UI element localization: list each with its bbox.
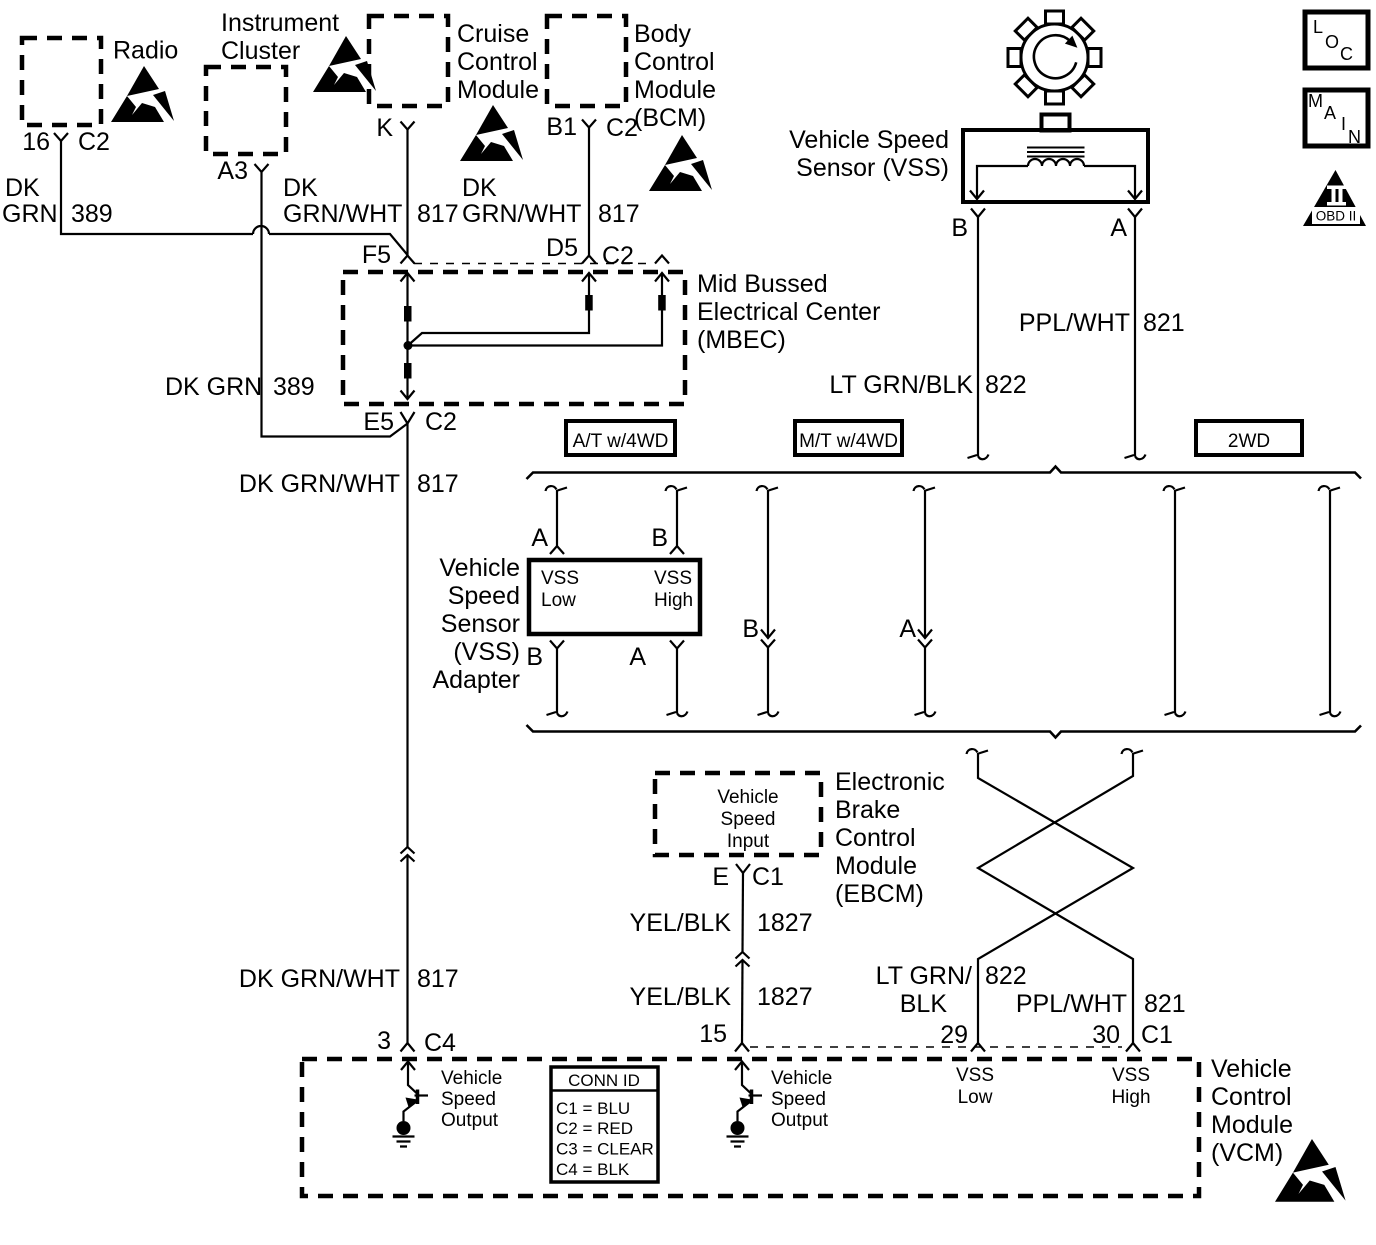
svg-text:YEL/BLK: YEL/BLK bbox=[630, 909, 732, 937]
svg-text:Control: Control bbox=[457, 48, 538, 76]
option box 2WD bbox=[1196, 421, 1302, 455]
svg-text:Module: Module bbox=[457, 76, 539, 104]
connector pin E5 C2 (MBEC bottom) bbox=[363, 408, 457, 436]
svg-text:Vehicle: Vehicle bbox=[439, 554, 520, 582]
svg-text:E: E bbox=[712, 863, 729, 891]
svg-text:Speed: Speed bbox=[448, 582, 520, 610]
svg-text:A: A bbox=[899, 615, 916, 643]
connector pin A (VSS) bbox=[1110, 209, 1142, 243]
svg-text:C2: C2 bbox=[602, 242, 634, 270]
svg-text:C1: C1 bbox=[752, 863, 784, 891]
svg-text:2WD: 2WD bbox=[1228, 431, 1270, 452]
wire DK GRN 389 from A3 to E5 bbox=[165, 172, 408, 437]
connector pin 15 C1 (VCM) bbox=[699, 1020, 749, 1052]
svg-text:VSS: VSS bbox=[956, 1065, 994, 1086]
MBEC internal output to E5 bbox=[401, 346, 415, 400]
svg-text:K: K bbox=[376, 114, 393, 142]
svg-text:821: 821 bbox=[1143, 309, 1185, 337]
svg-text:16: 16 bbox=[22, 128, 50, 156]
svg-text:Output: Output bbox=[441, 1110, 499, 1131]
cruise control module box bbox=[369, 16, 539, 106]
option box A/T w/4WD bbox=[566, 421, 675, 455]
svg-text:CONN ID: CONN ID bbox=[568, 1071, 640, 1090]
svg-text:Control: Control bbox=[1211, 1083, 1292, 1111]
connector id legend table bbox=[551, 1067, 658, 1182]
svg-text:(BCM): (BCM) bbox=[634, 104, 706, 132]
svg-text:C2: C2 bbox=[78, 128, 110, 156]
2WD column wire right bbox=[1319, 486, 1341, 716]
svg-text:Module: Module bbox=[835, 852, 917, 880]
svg-text:PPL/WHT: PPL/WHT bbox=[1019, 309, 1130, 337]
svg-text:A3: A3 bbox=[217, 157, 248, 185]
VCM connector C1 dashed line bbox=[750, 1046, 1122, 1048]
svg-text:Vehicle: Vehicle bbox=[771, 1068, 832, 1089]
MAIN reference box bbox=[1305, 90, 1368, 147]
svg-text:Body: Body bbox=[634, 20, 691, 48]
svg-text:B: B bbox=[526, 643, 543, 671]
svg-text:Output: Output bbox=[771, 1110, 829, 1131]
svg-text:PPL/WHT: PPL/WHT bbox=[1016, 990, 1127, 1018]
svg-text:Sensor: Sensor bbox=[441, 610, 520, 638]
svg-text:389: 389 bbox=[71, 200, 113, 228]
svg-text:C: C bbox=[1340, 44, 1353, 64]
svg-text:A: A bbox=[1324, 103, 1336, 123]
instrument cluster box bbox=[206, 9, 339, 154]
svg-text:Module: Module bbox=[1211, 1111, 1293, 1139]
VCM vehicle speed output driver 2 bbox=[727, 1062, 763, 1147]
svg-text:817: 817 bbox=[417, 965, 459, 993]
svg-text:C2: C2 bbox=[425, 408, 457, 436]
svg-text:29: 29 bbox=[940, 1021, 968, 1049]
svg-text:OBD II: OBD II bbox=[1316, 209, 1357, 224]
svg-text:Cluster: Cluster bbox=[221, 37, 300, 65]
svg-text:Brake: Brake bbox=[835, 796, 900, 824]
svg-text:C2 = RED: C2 = RED bbox=[556, 1119, 633, 1138]
option box M/T w/4WD bbox=[795, 421, 902, 455]
unlabeled connector pin (MBEC) bbox=[655, 256, 669, 264]
wire break symbol on 1827 wire bbox=[736, 952, 750, 967]
vehicle control module box bbox=[302, 1055, 1293, 1196]
svg-text:C2: C2 bbox=[606, 114, 638, 142]
svg-text:F5: F5 bbox=[362, 241, 391, 269]
svg-text:(MBEC): (MBEC) bbox=[697, 326, 786, 354]
twisted wire PPL/WHT 821 bbox=[978, 749, 1186, 1043]
MBEC internal bus D5 branch bbox=[409, 273, 596, 345]
mid bussed electrical center box bbox=[343, 270, 880, 404]
svg-text:VSS: VSS bbox=[654, 568, 692, 589]
wire DK GRN/WHT 817 from E5 to VCM pin 3 bbox=[239, 424, 459, 848]
svg-text:DK GRN/WHT: DK GRN/WHT bbox=[239, 470, 400, 498]
wire DK GRN/WHT 817 lower segment bbox=[239, 855, 459, 1043]
svg-text:A: A bbox=[629, 643, 646, 671]
M/T column wire A bbox=[899, 486, 935, 716]
svg-text:Vehicle: Vehicle bbox=[1211, 1055, 1292, 1083]
svg-text:L: L bbox=[1313, 17, 1323, 37]
svg-text:BLK: BLK bbox=[900, 990, 948, 1018]
svg-text:389: 389 bbox=[273, 373, 315, 401]
wire YEL/BLK 1827 lower segment bbox=[630, 960, 813, 1043]
connector pin E C1 (EBCM) bbox=[712, 863, 784, 891]
svg-text:DK GRN/WHT: DK GRN/WHT bbox=[239, 965, 400, 993]
connector pin A (adapter bottom) bbox=[629, 641, 684, 672]
connector pin A (adapter top) bbox=[550, 546, 564, 554]
svg-text:C4: C4 bbox=[424, 1029, 456, 1057]
svg-text:822: 822 bbox=[985, 371, 1027, 399]
connector pin A3 (instrument cluster) bbox=[217, 157, 268, 185]
instrument cluster ESD symbol bbox=[313, 36, 376, 92]
svg-text:B1: B1 bbox=[546, 113, 577, 141]
svg-text:C3 = CLEAR: C3 = CLEAR bbox=[556, 1140, 654, 1159]
svg-text:YEL/BLK: YEL/BLK bbox=[630, 983, 732, 1011]
2WD column wire left bbox=[1164, 486, 1186, 716]
svg-text:1827: 1827 bbox=[757, 983, 813, 1011]
wire DK GRN/WHT 817 from B1 to D5 bbox=[462, 128, 640, 256]
svg-text:VSS: VSS bbox=[1112, 1065, 1150, 1086]
svg-text:E5: E5 bbox=[363, 408, 394, 436]
svg-text:High: High bbox=[1111, 1087, 1150, 1108]
connector pin D5 C2 (MBEC) bbox=[546, 234, 634, 270]
vehicle speed sensor VSS box bbox=[789, 115, 1148, 203]
svg-text:O: O bbox=[1325, 32, 1339, 52]
svg-text:C4 = BLK: C4 = BLK bbox=[556, 1160, 630, 1179]
svg-text:821: 821 bbox=[1144, 990, 1186, 1018]
adapter label text bbox=[432, 554, 520, 694]
radio ESD symbol bbox=[111, 66, 174, 122]
wire PPL/WHT 821 from VSS A bbox=[1019, 217, 1185, 459]
cruise control ESD symbol bbox=[460, 105, 523, 161]
svg-text:Module: Module bbox=[634, 76, 716, 104]
wire YEL/BLK 1827 from EBCM bbox=[630, 873, 813, 952]
svg-text:DK GRN: DK GRN bbox=[165, 373, 262, 401]
vehicle speed sensor adapter box bbox=[529, 560, 700, 634]
svg-text:Vehicle Speed: Vehicle Speed bbox=[789, 126, 949, 154]
svg-text:822: 822 bbox=[985, 962, 1027, 990]
MBEC internal bus right branch bbox=[412, 273, 669, 346]
connector pin B (adapter top) bbox=[670, 546, 684, 554]
connector pin B (VSS) bbox=[951, 209, 985, 243]
svg-text:3: 3 bbox=[377, 1027, 391, 1055]
svg-text:A/T w/4WD: A/T w/4WD bbox=[573, 431, 669, 452]
wire DK GRN 389 from radio to F5 bbox=[2, 141, 408, 255]
MBEC internal junction bbox=[404, 341, 413, 350]
adapter lower wire A bbox=[667, 649, 688, 717]
svg-text:LT GRN/BLK: LT GRN/BLK bbox=[829, 371, 973, 399]
svg-text:Control: Control bbox=[835, 824, 916, 852]
MBEC connector dashed line bbox=[414, 263, 654, 265]
svg-text:817: 817 bbox=[598, 200, 640, 228]
svg-text:(VSS): (VSS) bbox=[453, 638, 520, 666]
VSS internal leads with arrows bbox=[970, 166, 1142, 199]
wire LT GRN/BLK 822 from VSS B bbox=[829, 217, 1026, 459]
wire break symbol on 817 wire bbox=[401, 847, 415, 862]
svg-text:817: 817 bbox=[417, 470, 459, 498]
svg-text:C1: C1 bbox=[1141, 1021, 1173, 1049]
svg-text:LT GRN/: LT GRN/ bbox=[876, 962, 972, 990]
svg-text:Electrical Center: Electrical Center bbox=[697, 298, 880, 326]
svg-text:VSS: VSS bbox=[541, 568, 579, 589]
svg-text:M/T w/4WD: M/T w/4WD bbox=[799, 431, 898, 452]
svg-text:Low: Low bbox=[958, 1087, 993, 1108]
svg-text:N: N bbox=[1348, 127, 1361, 147]
svg-text:GRN/WHT: GRN/WHT bbox=[462, 200, 581, 228]
svg-text:A: A bbox=[531, 524, 548, 552]
svg-text:B: B bbox=[742, 615, 759, 643]
VCM vehicle speed output driver 1 bbox=[393, 1062, 429, 1147]
VCM ESD symbol bbox=[1275, 1139, 1346, 1202]
adapter stub wire A bbox=[531, 486, 567, 552]
svg-text:15: 15 bbox=[699, 1020, 727, 1048]
svg-text:Speed: Speed bbox=[771, 1089, 826, 1110]
svg-text:Input: Input bbox=[727, 831, 770, 852]
connector pin B1 C2 (BCM) bbox=[546, 113, 638, 142]
svg-text:Radio: Radio bbox=[113, 37, 178, 65]
connector pin 29 (VCM VSS low) bbox=[940, 1021, 994, 1108]
svg-text:Adapter: Adapter bbox=[432, 666, 520, 694]
svg-text:Speed: Speed bbox=[721, 809, 776, 830]
connector pin 30 C1 (VCM VSS high) bbox=[1092, 1021, 1173, 1108]
svg-text:Vehicle: Vehicle bbox=[717, 787, 778, 808]
bottom option bus line bbox=[527, 725, 1362, 738]
radio module box bbox=[22, 37, 178, 126]
svg-text:I: I bbox=[1341, 114, 1346, 134]
adapter lower wire B bbox=[547, 649, 568, 717]
wire DK GRN/WHT 817 from K to F5 bbox=[283, 130, 459, 256]
svg-text:GRN: GRN bbox=[2, 200, 58, 228]
connector pin 16 C2 (radio) bbox=[22, 128, 110, 156]
svg-text:Sensor (VSS): Sensor (VSS) bbox=[796, 154, 949, 182]
electronic brake control module box bbox=[655, 768, 945, 908]
top option bus line bbox=[527, 467, 1362, 480]
svg-text:GRN/WHT: GRN/WHT bbox=[283, 200, 402, 228]
BCM ESD symbol bbox=[649, 135, 712, 191]
VSS internal pickup coil bbox=[1028, 159, 1084, 166]
svg-text:C1 = BLU: C1 = BLU bbox=[556, 1099, 630, 1118]
svg-text:Electronic: Electronic bbox=[835, 768, 945, 796]
adapter stub wire B bbox=[651, 486, 687, 552]
M/T column wire B bbox=[742, 486, 778, 716]
VSS reluctor gear wheel bbox=[1008, 11, 1101, 104]
svg-text:B: B bbox=[651, 524, 668, 552]
svg-text:DK: DK bbox=[462, 174, 497, 202]
connector pin 3 C4 (VCM) bbox=[377, 1027, 456, 1057]
connector pin F5 (MBEC) bbox=[362, 241, 415, 269]
svg-text:M: M bbox=[1308, 91, 1323, 111]
svg-text:Mid Bussed: Mid Bussed bbox=[697, 270, 828, 298]
svg-text:DK: DK bbox=[5, 174, 40, 202]
svg-text:(VCM): (VCM) bbox=[1211, 1139, 1283, 1167]
svg-text:Speed: Speed bbox=[441, 1089, 496, 1110]
svg-text:1827: 1827 bbox=[757, 909, 813, 937]
svg-text:Low: Low bbox=[541, 590, 576, 611]
body control module box bbox=[547, 16, 716, 132]
MBEC internal bus F5 branch bbox=[401, 273, 415, 346]
VSS internal magnetic core lines bbox=[1027, 148, 1085, 157]
connector pin K (cruise control) bbox=[376, 114, 414, 142]
svg-text:Instrument: Instrument bbox=[221, 9, 339, 37]
svg-text:High: High bbox=[654, 590, 693, 611]
svg-text:30: 30 bbox=[1092, 1021, 1120, 1049]
svg-text:Control: Control bbox=[634, 48, 715, 76]
svg-text:Cruise: Cruise bbox=[457, 20, 529, 48]
LOC reference box bbox=[1305, 12, 1368, 68]
twisted wire LT GRN/BLK 822 bbox=[876, 749, 1133, 1043]
svg-text:(EBCM): (EBCM) bbox=[835, 880, 924, 908]
svg-text:DK: DK bbox=[283, 174, 318, 202]
svg-text:817: 817 bbox=[417, 200, 459, 228]
OBD II symbol bbox=[1303, 170, 1366, 226]
svg-text:D5: D5 bbox=[546, 234, 578, 262]
svg-text:Vehicle: Vehicle bbox=[441, 1068, 502, 1089]
svg-text:B: B bbox=[951, 214, 968, 242]
svg-text:A: A bbox=[1110, 214, 1127, 242]
connector pin B (adapter bottom) bbox=[526, 641, 564, 672]
